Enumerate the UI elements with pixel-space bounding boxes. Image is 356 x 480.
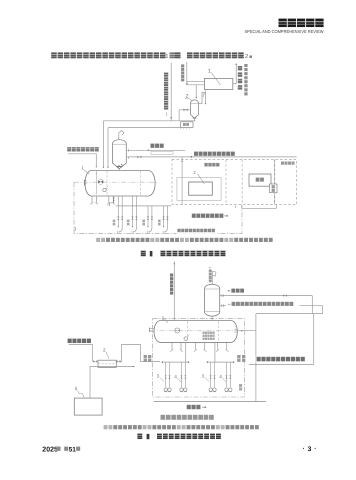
svg-text:SPECIAL AND COMPREHENSIVE REVI: SPECIAL AND COMPREHENSIVE REVIEW <box>245 29 325 34</box>
svg-text:1: 1 <box>208 69 211 75</box>
svg-text:5: 5 <box>75 386 78 391</box>
svg-text:2025: 2025 <box>42 446 58 453</box>
svg-text:1: 1 <box>165 54 168 60</box>
svg-text:51: 51 <box>69 446 77 453</box>
svg-text:1: 1 <box>162 316 165 321</box>
svg-text:2: 2 <box>103 348 106 353</box>
svg-text:·: · <box>303 446 305 453</box>
svg-text:3: 3 <box>308 446 312 453</box>
svg-text:2: 2 <box>245 53 248 60</box>
svg-text:·: · <box>314 446 316 453</box>
